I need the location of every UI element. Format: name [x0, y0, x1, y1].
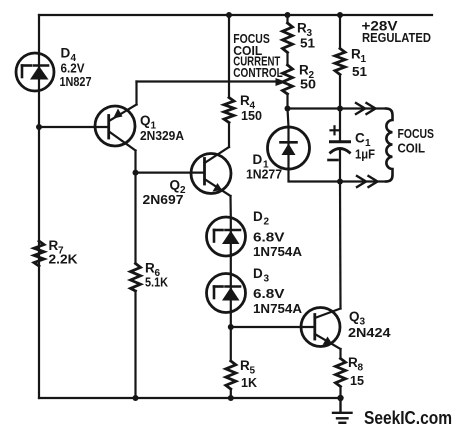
wire Q3 collector up to node	[339, 182, 342, 309]
wire Q3 base	[231, 326, 315, 328]
wire R1 bottom	[339, 75, 341, 109]
svg-text:Q: Q	[170, 178, 181, 193]
wire D2 to D3	[230, 256, 232, 274]
label R2 50	[299, 62, 316, 91]
resistor R1 (51)	[335, 49, 345, 75]
svg-text:R: R	[297, 21, 307, 36]
wire R8 bottom	[339, 387, 341, 399]
wire top rail	[39, 14, 432, 16]
svg-text:D: D	[253, 266, 263, 281]
transistor Q1 (PNP 2N329A)	[95, 105, 137, 151]
label FOCUS COIL CURRENT CONTROL	[233, 31, 283, 80]
diode D1 (1N277)	[268, 109, 310, 170]
wire D3 to node	[230, 313, 232, 328]
wire R2 bottom to node	[286, 94, 288, 109]
svg-text:Q: Q	[349, 309, 360, 324]
svg-text:15: 15	[350, 373, 364, 388]
diode D2 (zener 6.8V 1N754A)	[207, 217, 246, 256]
svg-text:R: R	[240, 93, 250, 108]
label Q1 2N329A	[140, 113, 185, 143]
resistor R8 (15)	[336, 359, 346, 387]
resistor R7 (2.2K) on left rail	[34, 241, 44, 266]
wire coil bottom return with arrows	[340, 176, 386, 187]
node R1 top rail	[337, 12, 343, 18]
label FOCUS COIL	[398, 126, 435, 156]
wire pot branch top	[286, 15, 288, 23]
node C1 top	[337, 106, 343, 112]
node D3 / R5 / Q3 base	[228, 324, 234, 330]
label R7 2.2K	[49, 238, 79, 267]
svg-text:6.8V: 6.8V	[253, 286, 285, 301]
svg-text:R: R	[145, 261, 155, 276]
wire Q1 collector down to node	[134, 151, 136, 173]
wire Q3 emitter to R8	[339, 349, 341, 359]
svg-text:2N424: 2N424	[348, 325, 391, 340]
svg-text:R: R	[240, 358, 250, 373]
wire R5 bottom	[230, 389, 232, 398]
capacitor C1 (1uF)	[329, 109, 350, 182]
wire Q1 emitter to pot wiper	[137, 78, 287, 105]
wire coil top feed with arrows	[340, 103, 386, 114]
wire Q1 base	[39, 126, 109, 128]
label D3 6.8V 1N754A	[253, 266, 303, 316]
label R3 51	[297, 21, 315, 51]
svg-text:COIL: COIL	[398, 140, 426, 155]
label R1 51	[351, 47, 367, 80]
svg-text:5.1K: 5.1K	[145, 275, 169, 290]
wire R3 to R2	[286, 53, 288, 66]
svg-text:51: 51	[352, 64, 367, 79]
svg-text:1μF: 1μF	[355, 147, 375, 162]
svg-text:50: 50	[300, 77, 316, 92]
svg-text:150: 150	[241, 108, 262, 123]
svg-text:1K: 1K	[241, 375, 258, 390]
label R6 5.1K	[145, 261, 169, 290]
wire R4 branch upper	[228, 15, 230, 98]
svg-text:CONTROL: CONTROL	[233, 65, 283, 80]
transistor Q2 (NPN 2N697)	[191, 147, 231, 196]
node R5 bottom rail	[228, 395, 234, 401]
svg-text:Q: Q	[140, 113, 151, 128]
svg-text:R: R	[351, 47, 361, 62]
resistor R2 (pot 50)	[283, 65, 293, 94]
wire D1 bottom to node	[289, 169, 341, 182]
svg-text:51: 51	[300, 36, 315, 51]
svg-text:R: R	[299, 62, 309, 77]
label D2 6.8V 1N754A	[253, 209, 303, 259]
wire R4 bottom to Q2 collector	[228, 123, 230, 148]
svg-text:2N697: 2N697	[143, 192, 184, 207]
svg-text:1N754A: 1N754A	[253, 301, 303, 316]
resistor R6 (5.1K)	[131, 264, 141, 292]
wire left rail	[38, 15, 40, 398]
svg-text:1N827: 1N827	[60, 74, 92, 89]
transistor Q3 (NPN 2N424)	[301, 308, 341, 350]
svg-text:1N754A: 1N754A	[253, 244, 303, 259]
svg-text:2.2K: 2.2K	[49, 252, 79, 267]
wire node row to C1	[288, 107, 341, 109]
wire Q1 collector branch / R6 upper	[134, 173, 136, 264]
svg-text:D: D	[61, 46, 71, 61]
svg-text:REGULATED: REGULATED	[362, 30, 431, 45]
diode D4 (zener 6.2V 1N827)	[16, 53, 54, 91]
svg-text:C: C	[355, 131, 365, 146]
label R5 1K	[240, 358, 258, 390]
inductor focus coil	[386, 109, 393, 182]
node R6 bottom rail	[133, 395, 139, 401]
wire R5 top	[230, 327, 232, 361]
label D1 1N277	[246, 152, 282, 182]
label R4 150	[240, 93, 262, 123]
wire Q2 base	[136, 172, 205, 174]
node C1 bottom	[337, 179, 343, 185]
svg-text:2: 2	[264, 217, 270, 228]
svg-text:6.8V: 6.8V	[253, 230, 285, 245]
wire R1 branch top	[339, 15, 341, 49]
svg-text:2N329A: 2N329A	[140, 128, 185, 143]
node R4 top rail	[226, 12, 232, 18]
node Q1 collector / Q2 base	[133, 170, 139, 176]
resistor R5 (1K)	[226, 361, 236, 389]
svg-text:SeekIC.com: SeekIC.com	[364, 407, 452, 428]
svg-text:FOCUS: FOCUS	[398, 126, 435, 141]
node ground junction	[337, 395, 343, 401]
node pot bottom	[285, 106, 291, 112]
svg-text:R: R	[348, 355, 358, 370]
svg-text:8: 8	[358, 363, 364, 374]
node Q1 base on left rail	[36, 124, 42, 130]
svg-text:D: D	[253, 209, 263, 224]
label R8 15	[348, 355, 364, 388]
wire Q2 emitter to D2	[229, 196, 232, 218]
label Q2 2N697	[143, 178, 187, 208]
diode D3 (zener 6.8V 1N754A)	[207, 274, 246, 313]
ground	[333, 398, 352, 423]
node pot top rail	[285, 12, 291, 18]
label +28V REGULATED	[362, 18, 432, 46]
label Q3 2N424	[348, 309, 391, 340]
resistor R4 (150)	[224, 98, 234, 123]
label D4 6.2V 1N827	[60, 46, 92, 90]
svg-text:1N277: 1N277	[246, 167, 282, 182]
label C1 1uF	[355, 131, 375, 162]
wire bottom rail	[39, 397, 341, 399]
wire R6 bottom	[134, 291, 136, 398]
resistor R3 (51)	[283, 23, 293, 53]
svg-text:D: D	[253, 152, 263, 167]
svg-text:3: 3	[264, 274, 270, 285]
